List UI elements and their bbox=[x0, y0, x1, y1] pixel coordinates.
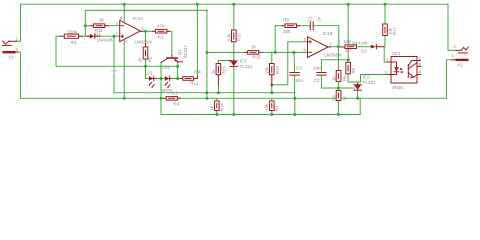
wire R14 top bbox=[216, 98, 218, 101]
wire R11 row bbox=[85, 25, 91, 27]
svg-text:R1: R1 bbox=[158, 35, 164, 40]
svg-text:LD1: LD1 bbox=[145, 71, 153, 76]
wire TL431 IC2 ref row bbox=[321, 87, 354, 89]
node x207 bias bbox=[205, 91, 208, 94]
svg-text:C1: C1 bbox=[308, 15, 313, 21]
svg-text:R16: R16 bbox=[222, 66, 227, 74]
diode D2 1N4148 bbox=[352, 40, 384, 53]
svg-text:R4: R4 bbox=[174, 101, 180, 106]
svg-text:X1: X1 bbox=[8, 55, 14, 60]
wire R3 right to node A bbox=[82, 35, 89, 37]
wire OK1 pin2 feed bbox=[361, 75, 388, 83]
wire rail y10 bbox=[85, 9, 207, 11]
TL431 IC2 bbox=[354, 75, 376, 91]
wire top rail drop x197 to R12 bbox=[196, 4, 198, 76]
wire TL431 IC3 anode down bbox=[233, 68, 235, 115]
wire IC1A pin3 down bbox=[113, 36, 115, 92]
wire R13 bottom bbox=[271, 86, 273, 93]
svg-text:R2: R2 bbox=[148, 56, 153, 62]
wire X1 sleeve vertical to ground rail bbox=[20, 52, 22, 98]
wire riser x294.8 to bottom rail bbox=[294, 98, 296, 114]
svg-text:R10: R10 bbox=[237, 33, 242, 41]
node bias R13 bbox=[270, 83, 273, 86]
wire C1 right corner down bbox=[314, 26, 339, 47]
resistor R2 vertical bbox=[138, 44, 153, 62]
svg-text:X2: X2 bbox=[457, 63, 463, 68]
node emitter y66 bbox=[176, 65, 179, 68]
svg-text:1k: 1k bbox=[251, 45, 257, 50]
TL431 IC3 bbox=[229, 59, 253, 70]
svg-text:R7: R7 bbox=[346, 49, 352, 54]
svg-text:IC2: IC2 bbox=[363, 75, 371, 80]
node gnd x161 bbox=[160, 97, 163, 100]
node bottom rail x294 bbox=[293, 113, 296, 116]
wire R2 top bbox=[145, 31, 147, 47]
resistor R12 20k bbox=[180, 69, 202, 85]
LED LD1 bbox=[145, 71, 156, 89]
node bias R16 bbox=[217, 91, 220, 94]
svg-text:1N4148: 1N4148 bbox=[97, 38, 114, 43]
wire R2 bottom bbox=[145, 59, 147, 66]
node gnd IC2 anode bbox=[356, 97, 359, 100]
resistor R6 vertical bbox=[346, 62, 356, 74]
wire R11 out to IC1A pin2 bbox=[108, 25, 120, 27]
resistor R14 vertical bbox=[209, 101, 225, 111]
resistor R4 on ground rail bbox=[163, 91, 180, 107]
wire X1 tip vertical bbox=[20, 4, 22, 41]
wire IC1B plus input bbox=[288, 41, 308, 43]
svg-text:LM358N: LM358N bbox=[135, 40, 152, 45]
svg-text:LD2: LD2 bbox=[162, 64, 170, 69]
svg-text:R8: R8 bbox=[332, 95, 337, 101]
resistor R7 510 bbox=[341, 39, 357, 54]
wire bottom rail riser bbox=[359, 98, 361, 114]
svg-text:510: 510 bbox=[344, 39, 352, 44]
node gnd x124 bbox=[123, 97, 126, 100]
node top rail x197 bbox=[196, 3, 199, 6]
wire bottom rail bbox=[161, 114, 360, 116]
node A R11/D1 bbox=[84, 24, 87, 27]
svg-text:IC1B: IC1B bbox=[323, 31, 333, 36]
svg-text:10n: 10n bbox=[313, 65, 321, 70]
svg-text:C3: C3 bbox=[296, 65, 302, 70]
svg-text:10n: 10n bbox=[295, 78, 303, 83]
wire rail y52.4 bbox=[207, 51, 308, 53]
wire Q1 collector down bbox=[160, 62, 162, 114]
node bias R13 rail bbox=[270, 91, 273, 94]
wire IC1A pin4 bbox=[123, 39, 125, 99]
wire TL431 IC3 ref row bbox=[218, 60, 231, 62]
node IC1B pin6 bbox=[293, 51, 296, 54]
svg-text:D1: D1 bbox=[95, 32, 101, 37]
svg-text:300k: 300k bbox=[67, 29, 78, 34]
resistor R17 10k vertical bbox=[383, 24, 397, 36]
connector X1 bbox=[2, 37, 19, 60]
resistor R10 3.3k vertical bbox=[227, 30, 242, 42]
resistor R15 1k bbox=[245, 45, 262, 60]
svg-text:R17: R17 bbox=[392, 27, 397, 35]
svg-text:R5: R5 bbox=[275, 105, 280, 111]
wire ground rail left bbox=[21, 97, 166, 99]
wire R13 top bbox=[271, 52, 273, 63]
resistor R5 vertical bbox=[264, 101, 280, 111]
wire C3 bottom to gnd bbox=[294, 76, 296, 99]
wire R3 left corner bbox=[56, 35, 61, 37]
capacitor C1 bbox=[308, 15, 322, 29]
wire R8 top bbox=[337, 88, 339, 91]
svg-text:R3: R3 bbox=[71, 40, 77, 45]
wire R10 top bbox=[233, 4, 235, 30]
resistor R18 vertical bbox=[332, 47, 347, 88]
wire TL431 IC2 cathode stub bbox=[357, 82, 359, 84]
node bottom rail x338 bbox=[337, 113, 340, 116]
svg-text:IC3: IC3 bbox=[240, 59, 248, 64]
svg-text:20k: 20k bbox=[283, 29, 291, 34]
node feedback riser bbox=[274, 51, 277, 54]
wire R5 top bbox=[271, 98, 273, 101]
svg-text:D2: D2 bbox=[361, 48, 367, 53]
LED LD2 green bbox=[162, 64, 173, 92]
wire X2 tip vertical bbox=[448, 4, 456, 50]
node R2 bias bbox=[144, 65, 147, 68]
wire IC1A output bbox=[143, 30, 153, 32]
op-amp IC1B bbox=[304, 31, 342, 58]
wire LED2 to R12 bbox=[172, 78, 183, 80]
resistor R16 vertical bbox=[211, 64, 227, 93]
resistor R9 20k bbox=[282, 18, 300, 34]
svg-text:1k: 1k bbox=[99, 18, 105, 23]
svg-text:47k: 47k bbox=[157, 24, 165, 29]
resistor R3 300k bbox=[60, 29, 83, 45]
op-amp IC1A bbox=[116, 16, 152, 45]
resistor R13 vertical bbox=[265, 64, 281, 86]
svg-text:0.1: 0.1 bbox=[172, 91, 179, 96]
wire R10 bottom to TL431 bbox=[233, 42, 235, 61]
node ref R8 bbox=[337, 87, 340, 90]
wire R6 bottom jog bbox=[348, 74, 360, 82]
wire R8 bottom bbox=[337, 101, 339, 115]
wire feedback row to R9 bbox=[275, 25, 282, 27]
wire R13 jog right bbox=[272, 42, 288, 85]
wire IC1B output bbox=[331, 46, 342, 48]
node x207 gnd bbox=[205, 97, 208, 100]
wire feedback up x275 bbox=[274, 26, 276, 53]
node top rail x124 bbox=[123, 3, 126, 6]
svg-text:BC547: BC547 bbox=[183, 45, 188, 58]
wire X2 sleeve vertical bbox=[446, 60, 452, 99]
svg-text:OK1: OK1 bbox=[392, 51, 402, 56]
wire R16 top bbox=[217, 61, 219, 64]
wire row y66 bbox=[56, 65, 178, 67]
node x207 rail52 bbox=[205, 51, 208, 54]
node IC1A out bbox=[144, 30, 147, 33]
wire C2 top lead bbox=[320, 60, 322, 72]
svg-text:R15: R15 bbox=[253, 55, 262, 60]
connector X2 bbox=[452, 44, 469, 68]
svg-text:R6: R6 bbox=[342, 75, 347, 81]
capacitor C3 10n bbox=[290, 65, 303, 83]
svg-text:R14: R14 bbox=[220, 103, 225, 111]
wire R9 to C1 bbox=[299, 25, 310, 27]
capacitor C2 10n bbox=[313, 65, 326, 83]
wire R17 top bbox=[384, 4, 386, 24]
wire node A vertical bbox=[84, 10, 86, 36]
node LED2 emitter bbox=[176, 77, 179, 80]
svg-text:R12: R12 bbox=[190, 81, 199, 86]
wire R7 to D2 bbox=[357, 46, 371, 48]
svg-text:IC1A: IC1A bbox=[133, 16, 144, 21]
wire LED1 to LED2 bbox=[156, 78, 165, 80]
svg-text:R13: R13 bbox=[275, 66, 280, 74]
resistor R1 47k bbox=[153, 24, 170, 40]
svg-text:Q1: Q1 bbox=[177, 49, 182, 55]
wire bias rail y92.7 bbox=[114, 92, 295, 94]
wire long vertical x203.8 bbox=[206, 10, 208, 98]
node C2 row bbox=[347, 58, 350, 61]
wire TL431 IC2 anode bbox=[357, 91, 359, 98]
node top rail x385 bbox=[384, 3, 387, 6]
wire R14 bottom bbox=[216, 111, 218, 115]
wire OK1 pin1 feed bbox=[384, 47, 387, 62]
wire C2 top row bbox=[321, 59, 348, 61]
wire x348 from top rail bbox=[347, 4, 349, 62]
wire C3 top bbox=[293, 52, 296, 71]
wire R17 bottom bbox=[383, 36, 386, 47]
wire IC1A pin8 bbox=[123, 4, 125, 23]
svg-text:4N35: 4N35 bbox=[392, 85, 403, 90]
transistor Q1 BC547 bbox=[161, 45, 188, 63]
node top rail x348 bbox=[347, 3, 350, 6]
wire Q1 emitter down bbox=[177, 63, 179, 79]
wire ground rail right bbox=[177, 97, 447, 99]
wire top rail bbox=[21, 3, 449, 5]
svg-text:1N4148: 1N4148 bbox=[352, 40, 369, 45]
svg-text:C2: C2 bbox=[314, 78, 320, 83]
resistor R11 1k bbox=[91, 18, 109, 33]
wire LED feed down bbox=[146, 66, 149, 78]
origin cross mark bbox=[111, 68, 117, 74]
svg-text:10k: 10k bbox=[264, 103, 269, 111]
wire R5 bottom bbox=[271, 111, 273, 115]
node bottom rail x234 bbox=[232, 113, 235, 116]
svg-text:R9: R9 bbox=[283, 18, 289, 23]
svg-text:10k: 10k bbox=[265, 66, 270, 74]
wire X1 tip lead bbox=[16, 40, 21, 42]
node IC1B out bbox=[337, 45, 340, 48]
wire C2 bottom lead bbox=[320, 76, 322, 88]
wire D1 out to IC1A pin3 bbox=[99, 35, 120, 37]
svg-text:20k: 20k bbox=[194, 69, 202, 74]
wire R3 down to bias row bbox=[55, 36, 57, 66]
node bottom rail x216 bbox=[215, 113, 218, 116]
svg-text:R5: R5 bbox=[351, 67, 356, 73]
node IC1A pin3 bbox=[113, 35, 116, 38]
wire R1 to Q1 base bbox=[167, 31, 172, 55]
svg-text:3.3k: 3.3k bbox=[227, 33, 232, 42]
node LED mid bbox=[160, 77, 163, 80]
optocoupler OK1 4N35 bbox=[385, 51, 422, 90]
node top rail x234 bbox=[232, 3, 235, 6]
node bottom rail x271 bbox=[270, 113, 273, 116]
diode D1 1N4148 bbox=[87, 32, 113, 43]
svg-text:TL431: TL431 bbox=[363, 80, 376, 85]
node gnd x294 bbox=[293, 97, 296, 100]
svg-text:TL431: TL431 bbox=[240, 64, 253, 69]
svg-text:5n: 5n bbox=[317, 16, 322, 21]
resistor R8 vertical bbox=[332, 91, 347, 101]
